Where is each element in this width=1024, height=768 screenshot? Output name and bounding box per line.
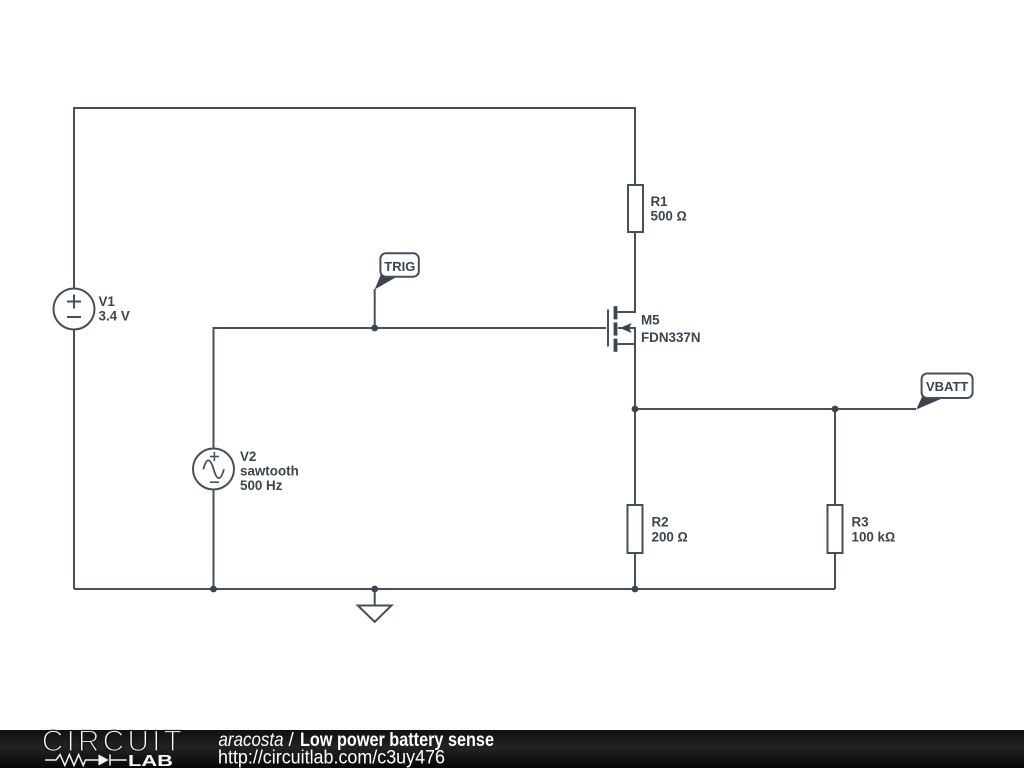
svg-text:3.4 V: 3.4 V: [99, 309, 130, 324]
wire gate net from V2 to M5 gate: [214, 328, 607, 449]
ground: [358, 606, 392, 622]
wire M5 body/source to node: [618, 328, 635, 409]
svg-text:200 Ω: 200 Ω: [652, 530, 688, 545]
svg-text:http://circuitlab.com/c3uy476: http://circuitlab.com/c3uy476: [218, 747, 445, 768]
svg-text:R2: R2: [652, 515, 669, 530]
svg-text:FDN337N: FDN337N: [641, 330, 701, 345]
svg-text:V2: V2: [240, 449, 256, 464]
junction node/R2: [632, 406, 639, 413]
wire V1 bottom to ground rail: [73, 330, 75, 590]
label V2 value: [240, 449, 299, 493]
resistor R3: [828, 505, 843, 553]
svg-text:VBATT: VBATT: [926, 379, 968, 394]
svg-text:100 kΩ: 100 kΩ: [852, 530, 896, 545]
transistor M5 NMOS: [608, 306, 632, 352]
wire ground stem: [374, 589, 376, 606]
label R2 value: [652, 515, 688, 545]
svg-text:V1: V1: [99, 294, 116, 309]
svg-text:500 Ω: 500 Ω: [651, 209, 687, 224]
svg-text:500 Hz: 500 Hz: [240, 478, 283, 493]
svg-text:R3: R3: [852, 515, 869, 530]
svg-text:LAB: LAB: [128, 753, 173, 768]
label V1 value: [99, 294, 130, 324]
voltage source V2 (function generator): [193, 449, 234, 490]
wire V2 bottom to ground rail: [213, 490, 215, 590]
resistor R1: [628, 185, 643, 232]
voltage source V1: [54, 289, 95, 330]
wire node to VBATT: [635, 408, 916, 410]
wire R3 top lead: [834, 409, 836, 505]
resistor R2: [628, 505, 643, 553]
junction TRIG/gate: [371, 325, 378, 332]
wire top rail from V1 to R1: [74, 108, 635, 289]
wire R2 bottom lead: [634, 553, 636, 589]
label R1 value: [651, 194, 687, 224]
wire R3 bottom lead: [834, 553, 836, 589]
label R3 value: [852, 515, 896, 545]
wire bottom ground rail: [74, 588, 835, 590]
svg-text:M5: M5: [641, 313, 660, 328]
junction ground symbol: [371, 586, 378, 593]
wire TRIG stem: [374, 289, 376, 328]
junction node/R3: [832, 406, 839, 413]
wire R1 bottom to M5 drain: [618, 232, 636, 312]
svg-text:R1: R1: [651, 194, 669, 209]
svg-text:TRIG: TRIG: [384, 259, 415, 274]
wire M5 source horizontal: [618, 343, 636, 345]
node TRIG flag: [375, 253, 419, 289]
logo resistor-diode glyph: [45, 754, 127, 765]
junction R2/ground rail: [632, 586, 639, 593]
node VBATT flag: [916, 374, 972, 410]
svg-text:sawtooth: sawtooth: [240, 464, 299, 479]
label M5 part number: [641, 313, 701, 346]
wire R2 top lead: [634, 409, 636, 505]
junction V2/ground rail: [210, 586, 217, 593]
